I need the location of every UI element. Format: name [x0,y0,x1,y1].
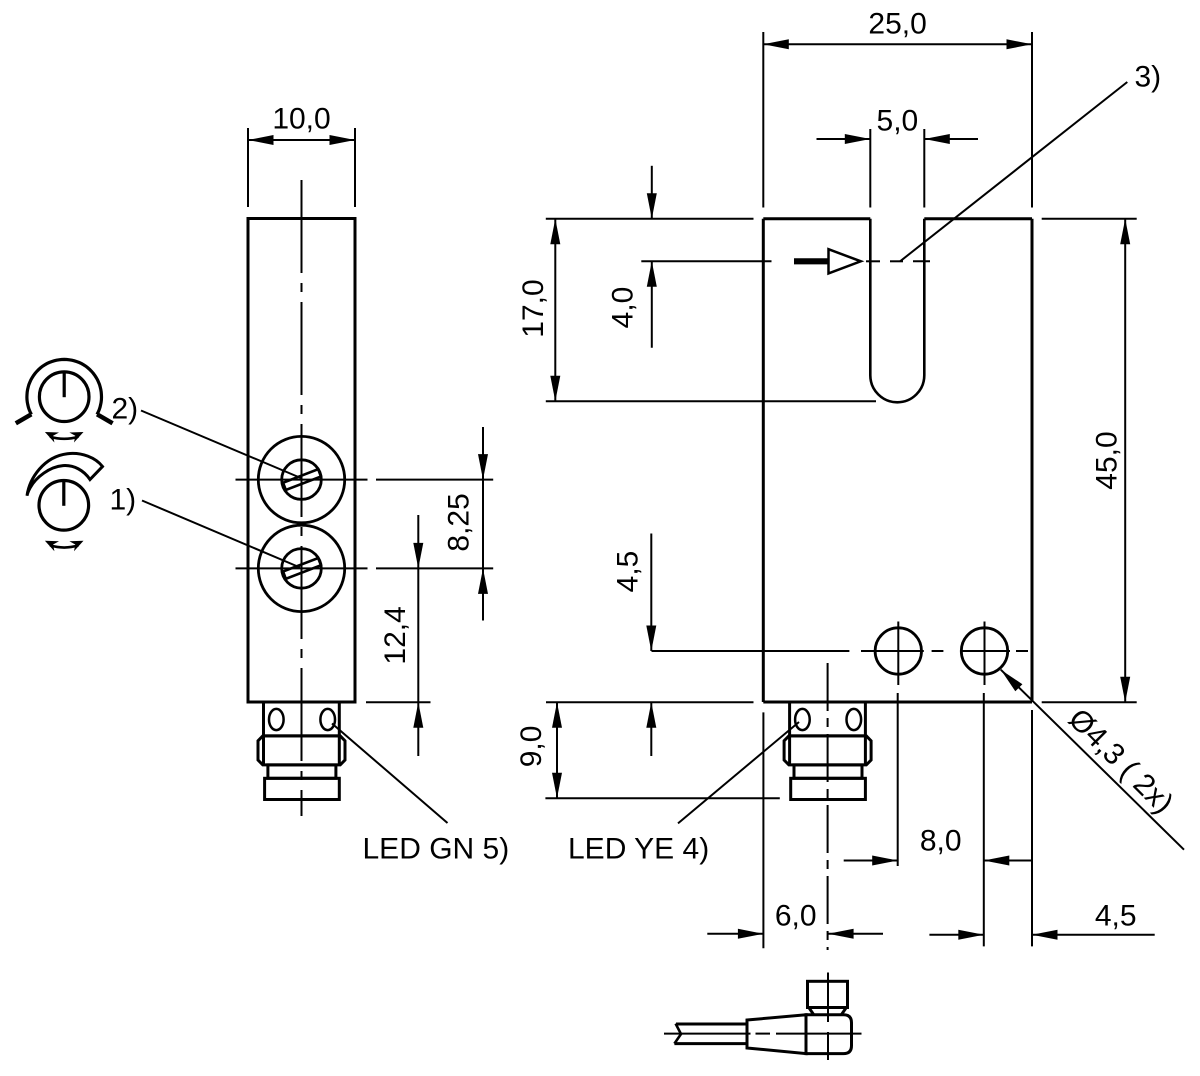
dimension 5,0 extension lines [869,129,871,208]
front view connector centerline [827,663,829,950]
svg-text:17,0: 17,0 [517,279,550,337]
front view bottom edge [763,701,1032,704]
svg-text:10,0: 10,0 [272,103,330,136]
mounting hole left [875,628,921,674]
front view right edge [1031,219,1034,702]
cable connector horizontal centerline [664,1033,751,1035]
label 2) leader line [141,411,302,479]
svg-text:6,0: 6,0 [775,900,817,933]
label 3) leader line [900,82,1127,261]
icon 1 knob circle [39,481,89,531]
dimension 25,0 line and arrows [763,43,1032,45]
dimension 45,0 line and arrows [1124,219,1126,703]
dimension 4,5 (edge) line and arrows [929,934,983,936]
front view left edge [762,219,765,702]
dimension 17,0 line and arrows [554,219,556,402]
svg-text:4,5: 4,5 [1095,900,1137,933]
svg-text:45,0: 45,0 [1091,431,1124,489]
front view M8 connector with LEDs [784,702,871,800]
dimension 8,25 arrows [478,454,488,480]
svg-text:9,0: 9,0 [515,726,548,768]
svg-text:8,0: 8,0 [920,825,962,858]
light beam axis line [641,260,771,262]
svg-text:3): 3) [1135,61,1162,94]
svg-text:2): 2) [112,393,139,426]
icon 2 arc end ticks [16,414,31,423]
dimension 8,25 line [482,427,484,621]
svg-text:LED YE 4): LED YE 4) [568,833,709,866]
cable strain relief cone [747,1015,806,1054]
dimension 9,0 bottom extension line [545,797,779,799]
hole diameter leader arrow [1001,670,1023,692]
mounting hole right vertical centerline [984,622,986,686]
dimension 45,0 top extension line [1042,218,1137,220]
dimension 12,4 arrows [413,543,423,569]
icon 2 swing arrow [50,437,78,439]
upper potentiometer (2) horizontal centerline [236,479,368,481]
label LED YE 4) leader line [678,722,799,823]
cable connector vertical centerline [827,973,829,1023]
svg-text:25,0: 25,0 [868,8,926,41]
svg-text:5,0: 5,0 [877,105,919,138]
icon 2 knob circle [39,372,89,422]
dimension 10,0 line and arrows [248,139,355,141]
dimension 17,0 top extension line [546,218,754,220]
dimension 8,0 extension lines [897,693,899,866]
cable connector plug body [808,981,848,1007]
svg-text:1): 1) [110,484,137,517]
lower potentiometer (1) outer circle [258,525,344,611]
icon 1 swing arrow [50,545,78,547]
hole diameter leader line [1001,670,1184,850]
mounting hole right [961,628,1007,674]
label LED GN 5) leader line [332,724,448,824]
light beam arrow shaft [794,258,829,264]
dimension 9,0 line and arrows [556,702,558,798]
dimension 6,0 left extension line [762,712,764,948]
cable break symbol [674,1024,681,1044]
body bottom left extension line [546,701,754,703]
lower potentiometer (1) screw slot [283,558,321,579]
front view top edge right arm [924,217,1032,220]
cable connector taper [809,1008,814,1015]
icon 2 adjustment knob outer arc [27,359,102,414]
side view M8 connector with LEDs [258,702,345,800]
upper potentiometer (2) outer circle [258,436,344,522]
upper potentiometer (2) screw head [282,460,322,500]
lower potentiometer (1) screw head [282,549,322,589]
dimension 4,0 line and arrows [651,166,653,219]
svg-text:4,0: 4,0 [607,287,640,329]
dimension 12,4 bottom extension line [366,701,431,703]
svg-text:4,5: 4,5 [612,551,645,593]
svg-text:8,25: 8,25 [443,493,476,551]
lower potentiometer (1) horizontal centerline [236,567,368,569]
mounting holes horizontal centerline [652,650,850,652]
cable connector main body [806,1015,852,1054]
dimension 5,0 line and arrows [817,138,871,140]
dimension 4,5 (hole offset) line and arrows [650,534,652,652]
label 1) leader line [142,501,300,568]
light beam open arrowhead [829,249,861,273]
dimension 4,5 (edge) right extension line [1031,710,1033,946]
front view top edge left arm [763,217,870,220]
side view vertical centerline [301,180,303,816]
dimension 12,4 line [417,515,419,756]
dimension 45,0 bottom extension line [1042,701,1137,703]
upper potentiometer (2) extension line to dimensions [376,479,493,481]
icon 1 knob pointer [62,481,65,506]
icon 2 knob pointer [63,372,66,397]
svg-text:12,4: 12,4 [379,606,412,664]
dimension 10,0 extension lines [247,128,249,207]
svg-text:LED GN 5): LED GN 5) [363,833,510,866]
upper potentiometer (2) screw slot [283,469,321,490]
cable lines [676,1023,747,1026]
dimension 6,0 line and arrows [707,933,763,935]
lower potentiometer (1) extension line to dimensions [376,567,493,569]
dimension 25,0 extension lines [762,32,764,208]
dimension 17,0 bottom extension line (slot depth) [546,400,876,402]
mounting hole left vertical centerline [897,622,899,686]
icon 1 adjustment arc band [27,453,103,495]
front view slot [870,219,924,403]
dimension 8,0 line and arrows [844,860,898,862]
side view body outline [248,219,355,703]
